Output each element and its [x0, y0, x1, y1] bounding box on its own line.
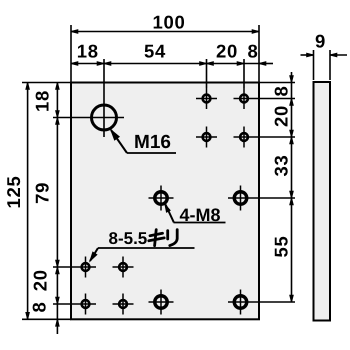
- svg-text:20: 20: [271, 105, 292, 127]
- svg-text:54: 54: [144, 41, 166, 62]
- svg-text:18: 18: [77, 41, 99, 62]
- svg-text:18: 18: [32, 90, 53, 112]
- svg-text:M16: M16: [134, 132, 171, 153]
- svg-text:20: 20: [30, 269, 51, 291]
- svg-text:8: 8: [271, 86, 292, 97]
- svg-text:79: 79: [32, 182, 53, 204]
- svg-text:4-M8: 4-M8: [180, 205, 221, 225]
- svg-text:100: 100: [153, 11, 186, 32]
- svg-text:8-5.5: 8-5.5: [109, 229, 148, 248]
- svg-text:8: 8: [29, 302, 50, 313]
- svg-text:20: 20: [216, 41, 238, 62]
- svg-text:9: 9: [315, 31, 326, 52]
- svg-text:125: 125: [3, 176, 24, 209]
- svg-text:8: 8: [248, 41, 259, 62]
- svg-text:55: 55: [271, 236, 292, 258]
- svg-text:33: 33: [271, 155, 292, 177]
